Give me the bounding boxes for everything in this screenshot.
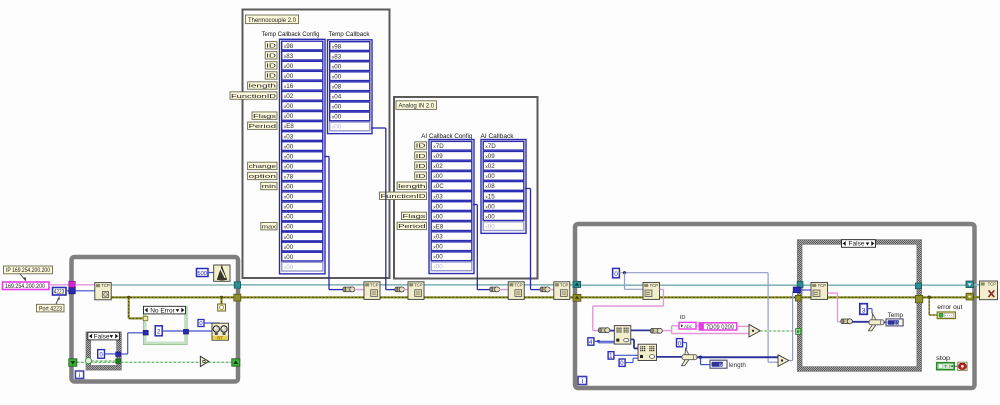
svg-text:x00: x00 <box>284 113 294 120</box>
svg-text:0: 0 <box>99 352 103 359</box>
svg-text:FunctionID: FunctionID <box>381 194 426 200</box>
svg-text:IP 169.254.200.200: IP 169.254.200.200 <box>6 267 50 274</box>
svg-text:False: False <box>849 241 865 248</box>
svg-text:Port 4223: Port 4223 <box>39 305 62 312</box>
svg-text:Flags: Flags <box>253 114 276 120</box>
svg-text:x7D: x7D <box>485 143 496 150</box>
svg-text:xE8: xE8 <box>433 223 444 230</box>
svg-text:x00: x00 <box>485 223 495 230</box>
svg-text:ID: ID <box>416 154 426 160</box>
svg-text:Period: Period <box>249 124 276 130</box>
svg-text:x00: x00 <box>485 173 495 180</box>
svg-text:ID: ID <box>416 144 426 150</box>
svg-text:x00: x00 <box>332 114 342 121</box>
svg-text:ID: ID <box>416 174 426 180</box>
svg-text:x7D: x7D <box>433 143 444 150</box>
svg-text:ID: ID <box>416 164 426 170</box>
svg-text:min: min <box>262 184 276 190</box>
svg-text:x00: x00 <box>284 73 294 80</box>
svg-text:ID: ID <box>266 54 276 60</box>
svg-text:x02: x02 <box>284 93 294 100</box>
svg-text:max: max <box>262 224 276 230</box>
svg-text:0: 0 <box>199 321 202 327</box>
svg-text:x00: x00 <box>433 173 443 180</box>
svg-text:x02: x02 <box>433 163 443 170</box>
svg-text:error out: error out <box>937 304 962 311</box>
svg-text:Analog IN 2.0: Analog IN 2.0 <box>399 103 435 110</box>
svg-text:x09: x09 <box>433 153 443 160</box>
svg-text:TCP: TCP <box>370 282 379 287</box>
svg-text:Temp: Temp <box>888 312 904 319</box>
svg-text:False: False <box>94 333 110 340</box>
svg-text:length: length <box>729 362 746 369</box>
svg-text:3: 3 <box>862 307 866 314</box>
svg-text:x00: x00 <box>433 244 443 251</box>
svg-text:TCP: TCP <box>414 282 423 287</box>
svg-text:98: 98 <box>719 362 725 367</box>
svg-text:x83: x83 <box>284 53 294 60</box>
svg-text:length: length <box>398 184 425 190</box>
svg-text:Flags: Flags <box>403 214 426 220</box>
svg-text:x00: x00 <box>332 73 342 80</box>
svg-text:x00: x00 <box>284 214 294 221</box>
svg-text:x00: x00 <box>284 184 294 191</box>
svg-text:169.254.200.200: 169.254.200.200 <box>5 283 45 290</box>
svg-text:ID: ID <box>680 315 686 321</box>
svg-text:T: T <box>944 364 947 369</box>
svg-text:x00: x00 <box>485 203 495 210</box>
svg-text:TCP: TCP <box>988 282 997 287</box>
svg-text:x03: x03 <box>433 233 443 240</box>
svg-text:TCP: TCP <box>514 282 523 287</box>
svg-text:x02: x02 <box>485 163 495 170</box>
svg-text:x98: x98 <box>332 43 342 50</box>
svg-text:x08: x08 <box>332 84 342 91</box>
svg-text:RT: RT <box>217 335 223 340</box>
svg-text:x78: x78 <box>284 173 294 180</box>
svg-text:x00: x00 <box>284 204 294 211</box>
svg-text:ID: ID <box>266 74 276 80</box>
svg-text:2: 2 <box>157 329 161 336</box>
svg-text:x83: x83 <box>332 53 342 60</box>
svg-text:x00: x00 <box>284 264 294 271</box>
svg-text:x00: x00 <box>332 124 342 131</box>
svg-text:4223: 4223 <box>54 290 65 296</box>
svg-text:Temp Callback: Temp Callback <box>329 31 371 38</box>
svg-text:x00: x00 <box>433 203 443 210</box>
svg-text:7D09 0200: 7D09 0200 <box>706 325 735 331</box>
svg-text:No Error: No Error <box>150 307 175 314</box>
svg-text:i: i <box>79 372 80 379</box>
svg-text:x16: x16 <box>284 83 294 90</box>
svg-text:x00: x00 <box>332 104 342 111</box>
svg-text:option: option <box>249 174 276 180</box>
svg-text:x08: x08 <box>485 183 495 190</box>
svg-text:change: change <box>249 164 277 170</box>
svg-text:500: 500 <box>197 271 207 277</box>
svg-text:ID: ID <box>266 64 276 70</box>
svg-text:x00: x00 <box>433 264 443 271</box>
svg-text:0: 0 <box>614 271 618 278</box>
svg-text:x00: x00 <box>284 244 294 251</box>
svg-text:x0C: x0C <box>433 183 444 190</box>
svg-text:TCP: TCP <box>101 283 110 288</box>
svg-text:x00: x00 <box>284 234 294 241</box>
svg-text:xE8: xE8 <box>284 123 295 130</box>
svg-text:x09: x09 <box>485 153 495 160</box>
svg-text:x98: x98 <box>284 43 294 50</box>
svg-text:Temp Callback Config: Temp Callback Config <box>262 31 320 38</box>
svg-text:FunctionID: FunctionID <box>231 94 276 100</box>
svg-text:TCP: TCP <box>818 283 827 288</box>
svg-text:ID: ID <box>266 44 276 50</box>
svg-text:TCP: TCP <box>650 283 659 288</box>
svg-text:x00: x00 <box>284 163 294 170</box>
svg-text:x00: x00 <box>284 224 294 231</box>
svg-text:x00: x00 <box>433 254 443 261</box>
svg-text:x15: x15 <box>485 193 495 200</box>
svg-text:x00: x00 <box>284 103 294 110</box>
svg-text:236: 236 <box>894 320 902 325</box>
svg-text:x00: x00 <box>284 153 294 160</box>
svg-text:x00: x00 <box>485 213 495 220</box>
svg-text:x00: x00 <box>284 143 294 150</box>
svg-text:x00: x00 <box>433 213 443 220</box>
svg-text:x04: x04 <box>332 94 342 101</box>
svg-text:Period: Period <box>398 224 425 230</box>
svg-text:x00: x00 <box>332 63 342 70</box>
svg-text:x03: x03 <box>284 133 294 140</box>
svg-text:Abc: Abc <box>684 324 693 330</box>
svg-text:x00: x00 <box>284 63 294 70</box>
svg-text:x00: x00 <box>284 254 294 261</box>
svg-text:x03: x03 <box>433 193 443 200</box>
svg-text:stop: stop <box>936 355 950 362</box>
svg-text:x00: x00 <box>284 194 294 201</box>
svg-text:length: length <box>249 84 276 90</box>
svg-text:Thermocouple 2.0: Thermocouple 2.0 <box>248 17 296 24</box>
svg-text:TCP: TCP <box>560 282 569 287</box>
